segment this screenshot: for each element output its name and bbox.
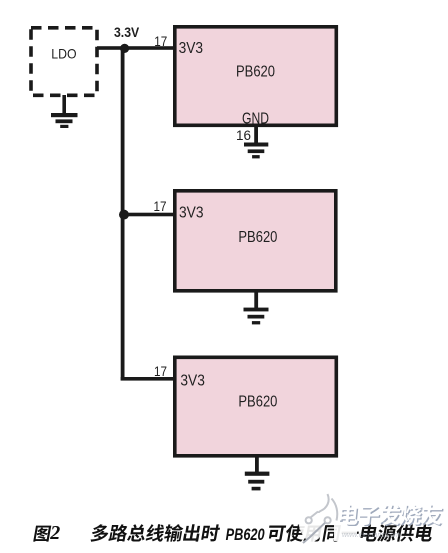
junction node (3.3V rail, middle) <box>119 210 129 220</box>
wire: bus to PB620 #2 pin 17 <box>122 213 175 217</box>
svg-text:PB620: PB620 <box>238 394 277 411</box>
svg-text:www.elecfans.com: www.elecfans.com <box>342 532 400 539</box>
wire: bus to PB620 #3 pin 17 <box>121 377 175 381</box>
svg-text:3V3: 3V3 <box>180 372 205 389</box>
svg-text:GND: GND <box>242 111 269 128</box>
IC U1 PB620 (top) <box>175 27 336 128</box>
svg-text:17: 17 <box>154 363 167 379</box>
svg-text:3V3: 3V3 <box>179 204 204 221</box>
svg-text:3V3: 3V3 <box>179 40 204 57</box>
svg-text:17: 17 <box>154 198 167 214</box>
svg-text:PB620: PB620 <box>238 229 277 246</box>
junction node (3.3V rail, top) <box>120 44 129 53</box>
ground (PB620 #3) <box>245 457 270 490</box>
svg-text:16: 16 <box>236 127 251 143</box>
LDO regulator (dashed block) <box>31 28 97 96</box>
wire: LDO output to PB620 #1 pin 17 <box>97 46 175 50</box>
ground (PB620 #1) <box>244 127 268 158</box>
wire: 3.3V vertical bus <box>121 46 125 380</box>
ground (PB620 #2) <box>244 293 269 325</box>
caption: figure 2 title <box>33 522 434 544</box>
IC U2 PB620 (middle) <box>175 191 336 291</box>
svg-text:PB620: PB620 <box>226 526 266 544</box>
svg-text:3.3V: 3.3V <box>114 25 139 40</box>
svg-text:PB620: PB620 <box>236 64 275 81</box>
svg-text:17: 17 <box>154 33 167 49</box>
IC U3 PB620 (bottom) <box>175 357 336 456</box>
svg-text:2: 2 <box>49 522 60 544</box>
watermark: elecfans logo figure <box>298 487 358 544</box>
watermark: elecfans site name <box>338 504 444 539</box>
ground (LDO) <box>51 95 78 128</box>
svg-text:LDO: LDO <box>51 46 76 62</box>
